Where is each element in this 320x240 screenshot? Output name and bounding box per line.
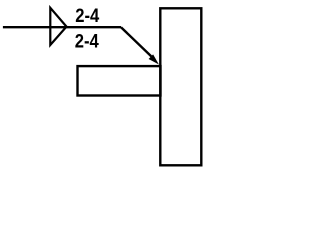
arrow/reference line (horizontal) xyxy=(3,26,121,28)
weld symbol triangle xyxy=(50,8,66,45)
horizontal plate xyxy=(78,66,161,95)
svg-text:2-4: 2-4 xyxy=(75,30,99,52)
vertical plate xyxy=(160,8,201,165)
leader line (diagonal) xyxy=(121,27,151,56)
svg-text:2-4: 2-4 xyxy=(75,5,99,27)
arrowhead xyxy=(149,54,159,64)
